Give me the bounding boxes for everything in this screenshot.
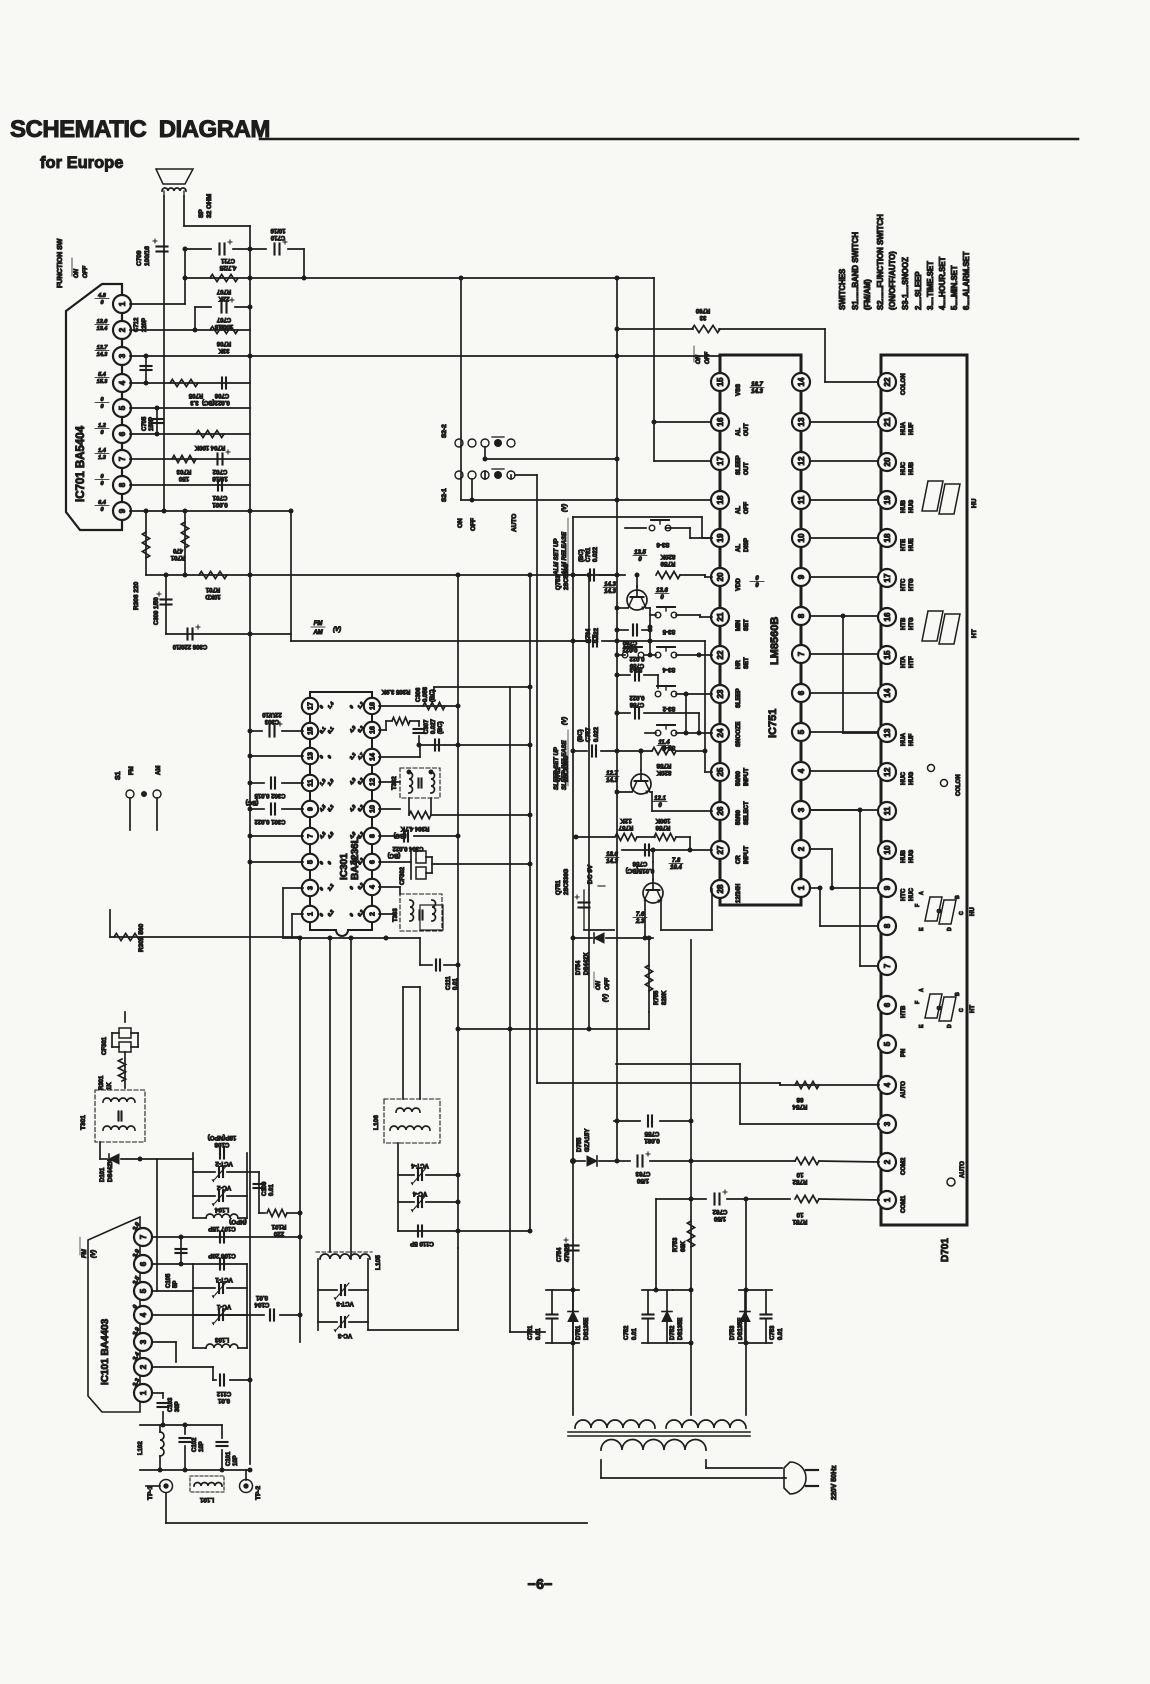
svg-text:INPUT: INPUT <box>744 846 750 864</box>
svg-text:OFF: OFF <box>470 518 477 531</box>
svg-text:L102: L102 <box>138 1441 144 1455</box>
capacitor ecap Q751 <box>575 890 614 930</box>
svg-text:F: F <box>915 1001 921 1004</box>
svg-text:COM2: COM2 <box>901 1157 907 1175</box>
svg-text:6: 6 <box>118 431 127 436</box>
svg-text:22U/10: 22U/10 <box>262 711 282 717</box>
display digit HT <box>922 611 978 644</box>
meas Q751c <box>633 912 647 925</box>
svg-text:C304 0.022: C304 0.022 <box>392 845 424 851</box>
capacitor C307 <box>414 718 445 745</box>
svg-text:3: 3 <box>797 807 806 812</box>
IC701 pins 1-9 <box>113 295 131 520</box>
transformer secondary core <box>568 1432 750 1436</box>
varcap VC-1 <box>193 1303 247 1326</box>
svg-text:28: 28 <box>716 884 725 893</box>
switch S3-4 <box>644 647 712 672</box>
svg-text:ON: ON <box>696 354 702 364</box>
label ALM SET UP <box>554 504 568 576</box>
capacitor C712 <box>134 317 152 386</box>
resistor R706 <box>210 326 238 353</box>
svg-text:HUG: HUG <box>909 499 915 513</box>
svg-text:R757: R757 <box>618 824 633 831</box>
svg-text:C709: C709 <box>136 250 143 266</box>
IC301 pins <box>302 698 380 922</box>
svg-text:17: 17 <box>716 456 725 465</box>
svg-text:ON: ON <box>74 268 80 278</box>
label SP 32 OHM <box>198 194 213 218</box>
wire jog pin1 <box>810 886 879 927</box>
svg-text:17: 17 <box>883 573 892 582</box>
svg-text:G: G <box>937 1006 943 1010</box>
wire lc bottom <box>140 1468 253 1473</box>
svg-text:(V): (V) <box>333 627 341 633</box>
svg-text:OFF: OFF <box>744 502 750 514</box>
svg-text:C763: C763 <box>635 1170 650 1177</box>
IC101 pins <box>134 1228 152 1402</box>
label DC 9V <box>587 864 605 886</box>
wire jog pin13d <box>841 614 880 734</box>
svg-text:D101: D101 <box>100 1167 106 1182</box>
svg-text:14.3: 14.3 <box>97 352 108 358</box>
svg-text:8: 8 <box>118 482 127 487</box>
capacitor C308 <box>172 625 207 649</box>
wire s35 stem <box>648 615 653 658</box>
wire S2 off down <box>470 479 475 503</box>
svg-text:0.01: 0.01 <box>536 1328 542 1340</box>
svg-text:15: 15 <box>883 650 892 659</box>
wire bottom long <box>166 1493 587 1523</box>
svg-text:IC701 BA5404: IC701 BA5404 <box>75 425 87 502</box>
svg-text:R703: R703 <box>176 468 191 475</box>
svg-text:VC-3: VC-3 <box>337 1332 352 1339</box>
svg-text:C702: C702 <box>212 468 227 475</box>
capacitor C303 <box>248 711 304 737</box>
diode D752 cap C752 <box>624 1288 694 1346</box>
svg-text:FUNCTION SW: FUNCTION SW <box>57 238 64 288</box>
svg-text:C758: C758 <box>629 701 644 707</box>
svg-text:C101: C101 <box>226 1451 232 1466</box>
IC101 pin voltages <box>132 1221 141 1388</box>
svg-text:C753: C753 <box>770 1325 776 1340</box>
resistor R pin16 <box>392 717 419 726</box>
diode D755 <box>570 1129 617 1166</box>
svg-text:HUF: HUF <box>909 422 915 435</box>
label FUNCTION SW <box>57 238 89 288</box>
svg-text:2SC536G: 2SC536G <box>564 755 570 782</box>
svg-text:18: 18 <box>370 702 377 710</box>
wire bus x291 <box>289 509 294 642</box>
svg-text:L105: L105 <box>375 1255 382 1270</box>
terminal TP-2 <box>240 1470 263 1500</box>
resistor R703 <box>172 455 196 482</box>
svg-text:(BC): (BC) <box>578 729 584 742</box>
svg-text:D: D <box>947 1024 953 1028</box>
svg-text:26: 26 <box>716 806 725 815</box>
svg-text:7: 7 <box>139 1234 148 1239</box>
svg-text:R706: R706 <box>216 340 231 346</box>
svg-text:HUF: HUF <box>909 733 915 746</box>
svg-text:0: 0 <box>100 404 103 410</box>
svg-text:(BC): (BC) <box>388 852 401 858</box>
IC751 pin functions <box>736 384 750 903</box>
capacitor C758 <box>615 694 700 719</box>
wire speaker right <box>184 196 250 226</box>
svg-text:D752: D752 <box>670 1325 676 1340</box>
svg-text:R306 220: R306 220 <box>133 581 140 610</box>
svg-text:5: 5 <box>118 405 127 410</box>
wire pin16 loop <box>379 721 392 730</box>
wire bus x537 <box>536 475 538 1083</box>
svg-text:IC301: IC301 <box>339 853 350 880</box>
wire bus x530 <box>529 575 531 1232</box>
capacitor C701 <box>212 480 228 509</box>
svg-text:0.01: 0.01 <box>778 1328 784 1340</box>
wire pin3l <box>283 888 303 938</box>
svg-text:15: 15 <box>308 727 315 735</box>
capacitor C706 <box>190 378 230 406</box>
labels ON OFF AUTO <box>457 514 518 532</box>
svg-text:C301 0.022: C301 0.022 <box>254 818 286 824</box>
svg-text:HTF: HTF <box>909 656 915 668</box>
svg-text:14: 14 <box>797 377 806 386</box>
svg-text:C111: C111 <box>446 976 452 990</box>
capacitor C102 <box>180 1423 206 1471</box>
wire alm bracket <box>573 517 712 538</box>
switch S2-1 <box>441 469 515 502</box>
display segment map HT <box>915 988 976 1028</box>
svg-text:R101: R101 <box>271 1223 286 1230</box>
svg-text:0.01: 0.01 <box>632 1328 638 1340</box>
wire pin2 <box>379 913 395 915</box>
wire pin7 row <box>152 1235 303 1240</box>
svg-text:L103: L103 <box>214 1336 229 1343</box>
capacitor C104 <box>254 1294 302 1321</box>
wire pin18 <box>379 704 461 709</box>
svg-text:(NPO): (NPO) <box>229 1218 247 1225</box>
wire pin4 row <box>152 1314 264 1316</box>
svg-text:FM: FM <box>82 1248 88 1258</box>
wire pin5 row <box>152 1159 193 1291</box>
svg-text:C307: C307 <box>424 719 430 734</box>
svg-text:15: 15 <box>716 377 725 386</box>
capacitor C763 <box>615 1152 694 1184</box>
svg-text:19: 19 <box>716 533 725 542</box>
svg-text:1K: 1K <box>107 1082 113 1090</box>
svg-text:HTA: HTA <box>901 655 907 668</box>
svg-text:0: 0 <box>319 912 326 918</box>
svg-text:19: 19 <box>883 495 892 504</box>
svg-text:C707: C707 <box>216 316 231 322</box>
switch S3-2 <box>655 686 712 711</box>
wire speaker left <box>163 196 165 511</box>
wire y745 <box>417 743 533 748</box>
coil L102 <box>138 1423 222 1471</box>
wire pin7 <box>130 458 250 460</box>
svg-text:0: 0 <box>319 704 326 710</box>
node COLON <box>928 765 963 797</box>
svg-text:1: 1 <box>308 912 315 916</box>
wire R760 run <box>615 327 880 383</box>
svg-text:C: C <box>959 1008 965 1012</box>
svg-text:820K: 820K <box>656 769 671 776</box>
svg-text:SET: SET <box>744 657 750 669</box>
IC301 pin voltages <box>318 701 366 918</box>
capacitor C760 <box>615 625 653 653</box>
svg-text:6: 6 <box>883 1002 892 1007</box>
svg-text:14.3: 14.3 <box>604 589 616 595</box>
svg-text:HT: HT <box>971 629 978 638</box>
wire S2-2 out <box>483 447 620 462</box>
svg-text:HTG: HTG <box>909 578 915 591</box>
svg-text:R758: R758 <box>656 762 671 769</box>
capacitor C111 <box>420 938 461 990</box>
svg-text:3: 3 <box>118 353 127 358</box>
svg-text:4: 4 <box>797 768 806 773</box>
capacitor C108 <box>208 1134 237 1159</box>
wire FM-AM <box>291 639 592 644</box>
capacitor C106 <box>208 1252 236 1270</box>
svg-text:C705: C705 <box>142 416 148 431</box>
capacitor C107 <box>208 1218 247 1243</box>
resistor R101 <box>259 1209 303 1237</box>
svg-text:0.022: 0.022 <box>594 726 600 742</box>
svg-text:VCT-3: VCT-3 <box>336 1300 354 1307</box>
svg-text:8: 8 <box>797 613 806 618</box>
svg-text:D: D <box>947 927 953 931</box>
svg-text:GZA15Y: GZA15Y <box>585 1129 591 1152</box>
svg-text:0.022: 0.022 <box>593 546 599 562</box>
svg-text:HUG: HUG <box>909 849 915 863</box>
svg-text:9: 9 <box>118 508 127 513</box>
resistor R707 <box>210 274 238 301</box>
svg-text:F: F <box>915 904 921 907</box>
svg-text:S1......BAND SWITCH: S1......BAND SWITCH <box>851 232 860 310</box>
svg-text:C752: C752 <box>624 1325 630 1340</box>
wire bus x617 <box>615 276 620 1161</box>
svg-text:(V): (V) <box>603 994 609 1002</box>
wire pin8 <box>130 484 250 486</box>
svg-text:R704 100K: R704 100K <box>194 444 225 450</box>
svg-text:10: 10 <box>796 1211 803 1218</box>
svg-text:(BC): (BC) <box>579 549 585 562</box>
svg-text:HU: HU <box>971 498 978 508</box>
capacitor C710 <box>250 227 307 281</box>
svg-text:150P: 150P <box>149 417 155 431</box>
wire S2-1 link <box>484 471 486 479</box>
svg-text:C760: C760 <box>622 639 637 645</box>
svg-text:LM8560B: LM8560B <box>769 617 781 665</box>
svg-text:12: 12 <box>883 767 892 776</box>
wire pin7l <box>248 834 304 839</box>
svg-text:50/60: 50/60 <box>736 809 742 825</box>
svg-text:AUTO: AUTO <box>960 1161 966 1178</box>
wire pin3 row <box>152 1342 176 1362</box>
svg-text:E: E <box>919 1024 925 1028</box>
label IC101 BA4403 <box>100 1318 111 1385</box>
svg-text:24: 24 <box>716 728 725 737</box>
label D701 <box>940 1238 951 1262</box>
svg-text:6.2: 6.2 <box>327 909 336 918</box>
wire pin27 row <box>622 837 712 853</box>
svg-text:3: 3 <box>308 886 315 890</box>
capacitor C101 <box>217 1425 240 1470</box>
svg-text:MIN: MIN <box>736 620 742 631</box>
wire d101 vert <box>0 0 1 1</box>
svg-text:L104: L104 <box>214 1206 229 1213</box>
svg-text:4....HOUR.SET: 4....HOUR.SET <box>938 256 947 310</box>
svg-text:8: 8 <box>883 923 892 928</box>
svg-text:12: 12 <box>797 456 806 465</box>
svg-text:OUT: OUT <box>744 423 750 436</box>
svg-text:HUB: HUB <box>901 499 907 513</box>
capacitor C756 <box>626 845 655 875</box>
svg-text:0.056: 0.056 <box>423 686 429 702</box>
resistor R751 <box>746 1195 879 1225</box>
resistor R758 <box>652 747 712 776</box>
wire pin9 <box>130 509 291 514</box>
svg-text:IC751: IC751 <box>767 709 779 738</box>
transformer secondary <box>601 1440 706 1450</box>
svg-text:0: 0 <box>658 803 662 809</box>
svg-text:HUA: HUA <box>901 421 907 435</box>
wire pin2 <box>130 329 250 331</box>
svg-text:C106 20P: C106 20P <box>208 1252 236 1259</box>
capacitor C110 <box>410 1226 434 1248</box>
capacitor C103 <box>158 1397 182 1425</box>
svg-text:(V): (V) <box>562 504 568 512</box>
wire H y634 <box>166 632 291 637</box>
label IC301 BA4236L <box>339 837 361 880</box>
svg-text:for Europe: for Europe <box>40 154 123 172</box>
svg-text:0.01: 0.01 <box>453 978 459 990</box>
svg-text:HUC: HUC <box>901 771 907 785</box>
svg-text:13: 13 <box>308 752 315 760</box>
diode D754 <box>571 933 654 975</box>
filter CF302 <box>379 851 533 885</box>
svg-text:HTG: HTG <box>909 617 915 630</box>
svg-text:SWITCHES: SWITCHES <box>838 269 847 310</box>
wire ic301 bottom <box>283 936 420 941</box>
svg-text:C761: C761 <box>586 547 592 562</box>
transformer T301 <box>80 1090 145 1142</box>
svg-text:R701: R701 <box>170 554 185 560</box>
svg-text:Q751: Q751 <box>556 880 562 895</box>
wire pin6 row <box>152 1262 247 1267</box>
svg-text:HUC: HUC <box>909 887 915 901</box>
svg-text:C759: C759 <box>629 662 644 668</box>
svg-text:150: 150 <box>178 475 189 482</box>
wire bus x691 <box>690 940 692 1415</box>
transistor Q751 <box>556 862 712 941</box>
svg-text:DS135E: DS135E <box>738 1318 744 1340</box>
svg-text:14: 14 <box>370 753 377 761</box>
svg-text:14.3: 14.3 <box>606 778 618 784</box>
svg-text:2: 2 <box>139 1364 148 1369</box>
switch S3-6 <box>625 520 712 548</box>
varcap VC-3 <box>318 1315 368 1339</box>
diode D101 <box>100 1142 193 1182</box>
capacitor C105 <box>166 1237 187 1288</box>
resistor R756 <box>637 817 690 841</box>
svg-text:0: 0 <box>660 595 664 601</box>
svg-text:2: 2 <box>883 1159 892 1164</box>
svg-text:C108: C108 <box>214 1141 229 1148</box>
wire pin4 feed <box>537 1083 879 1085</box>
svg-text:INPUT: INPUT <box>744 768 750 786</box>
wire H y278 <box>185 276 654 281</box>
svg-text:6: 6 <box>370 860 377 864</box>
wire pin16 feed <box>652 420 713 425</box>
svg-text:7: 7 <box>797 651 806 656</box>
svg-text:C711: C711 <box>220 257 235 263</box>
svg-text:0.001: 0.001 <box>212 501 228 508</box>
op-amp IC301 BA4236L body <box>310 692 372 936</box>
svg-text:FM: FM <box>129 766 135 775</box>
svg-text:S1: S1 <box>115 771 122 780</box>
label IC701 BA5404 <box>75 425 87 502</box>
svg-text:C109: C109 <box>262 1181 268 1196</box>
label ON OFF ic751 <box>694 346 711 364</box>
wire pin10 <box>379 808 400 810</box>
svg-text:0: 0 <box>100 507 103 513</box>
svg-text:HUG: HUG <box>909 771 915 785</box>
svg-text:DISP: DISP <box>744 538 750 552</box>
filter CF301 <box>102 1012 138 1055</box>
svg-text:CR: CR <box>736 855 742 864</box>
diode D751 cap C751 <box>528 1288 590 1346</box>
varcap VCT-3 <box>318 1283 368 1307</box>
svg-text:820K: 820K <box>662 990 668 1005</box>
svg-text:VDD: VDD <box>736 578 742 591</box>
meas Q753b <box>655 588 669 601</box>
svg-text:2: 2 <box>118 327 127 332</box>
resistor R760 <box>692 307 720 333</box>
svg-text:T302: T302 <box>392 776 398 790</box>
wire bus x510 <box>508 687 546 1332</box>
svg-text:AM: AM <box>312 630 323 636</box>
wire S2-1 auto out <box>511 475 537 479</box>
svg-text:2: 2 <box>370 912 377 916</box>
svg-text:470/25: 470/25 <box>565 1243 571 1262</box>
resistor R704 <box>194 430 225 450</box>
svg-text:13: 13 <box>797 417 806 426</box>
transistor Q753 <box>556 563 650 615</box>
svg-text:1/50: 1/50 <box>636 1177 649 1184</box>
svg-text:0.022: 0.022 <box>629 694 645 700</box>
coil L103 <box>193 1336 247 1348</box>
svg-text:820K: 820K <box>660 553 675 560</box>
svg-text:0.081: 0.081 <box>644 1137 660 1144</box>
svg-text:IC101 BA4403: IC101 BA4403 <box>100 1318 111 1385</box>
svg-text:C104: C104 <box>254 1301 269 1308</box>
wire pin3 d701 <box>616 1064 879 1124</box>
svg-text:R301: R301 <box>99 1075 105 1090</box>
svg-text:5: 5 <box>797 729 806 734</box>
wire Q752 down <box>652 810 712 812</box>
svg-text:0.022(BC) 3.3: 0.022(BC) 3.3 <box>190 399 230 405</box>
svg-text:VC-2: VC-2 <box>216 1184 231 1191</box>
svg-text:DC 9V: DC 9V <box>587 864 594 884</box>
svg-text:HTB: HTB <box>901 617 907 630</box>
capacitor C302 <box>246 778 303 806</box>
meas VSS <box>750 382 764 395</box>
svg-text:0: 0 <box>638 557 642 563</box>
svg-text:R752: R752 <box>792 1178 807 1185</box>
switch S3-3 <box>615 647 644 672</box>
svg-text:C754: C754 <box>557 1247 563 1262</box>
svg-text:12K: 12K <box>620 817 632 824</box>
